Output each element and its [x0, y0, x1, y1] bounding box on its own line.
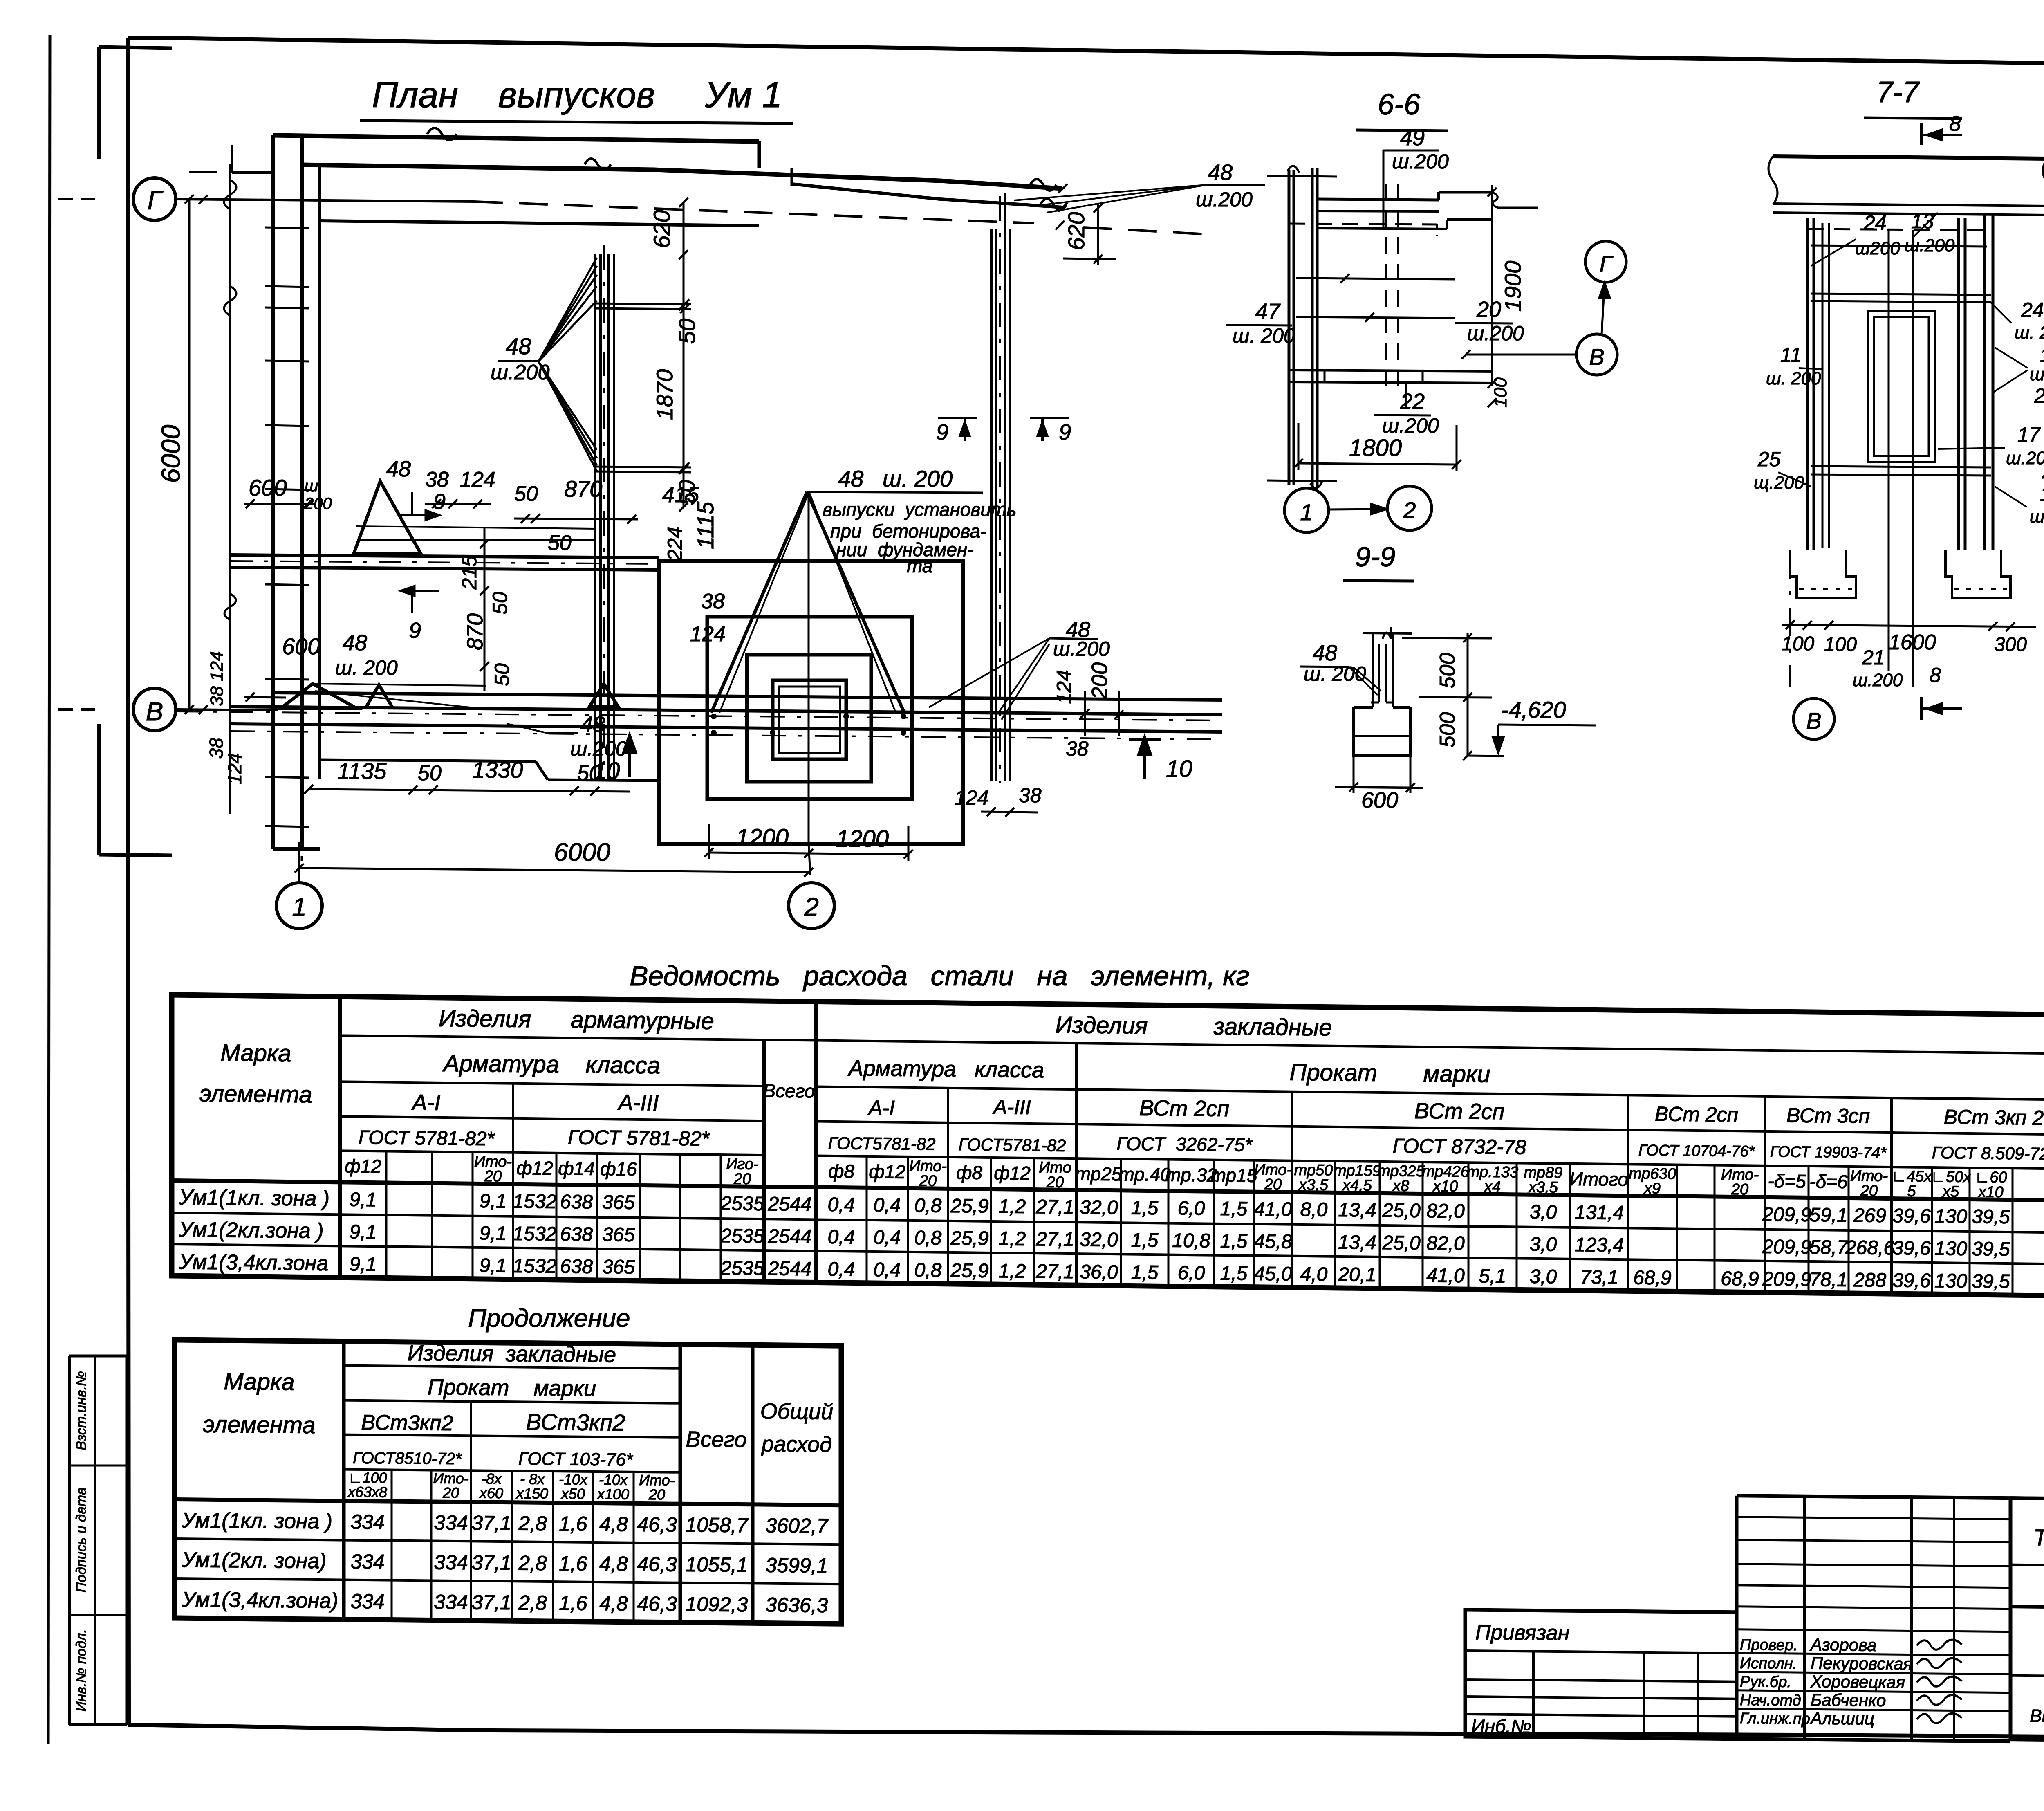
svg-text:ВСт 3кп 2: ВСт 3кп 2	[1944, 1105, 2044, 1129]
svg-text:20: 20	[442, 1484, 459, 1501]
svg-text:Подпись и дата: Подпись и дата	[74, 1487, 89, 1592]
svg-text:ВСт 2сп: ВСт 2сп	[1655, 1102, 1738, 1126]
svg-text:х5: х5	[1942, 1183, 1959, 1200]
svg-text:2535: 2535	[720, 1257, 764, 1279]
svg-text:Ведомость расхода стали: Ведомость расхода стали на элемент, кг	[630, 960, 1250, 992]
svg-text:25,9: 25,9	[950, 1195, 988, 1217]
svg-text:1,5: 1,5	[1131, 1262, 1159, 1284]
svg-text:9,1: 9,1	[350, 1254, 377, 1276]
svg-text:2: 2	[2042, 462, 2044, 482]
svg-text:10,8: 10,8	[1172, 1230, 1210, 1252]
svg-text:ш.200: ш.200	[491, 361, 549, 384]
svg-text:-δ=5: -δ=5	[1768, 1170, 1806, 1192]
svg-text:3,0: 3,0	[1530, 1266, 1557, 1288]
svg-text:23: 23	[2034, 384, 2044, 407]
svg-text:В: В	[1806, 708, 1821, 734]
svg-text:48: 48	[1313, 641, 1337, 665]
7-7 section mark 8 top	[1920, 123, 1923, 145]
7-7 mid vertical rebar	[1888, 230, 1890, 544]
svg-text:39,6: 39,6	[1892, 1205, 1931, 1227]
svg-text:1,5: 1,5	[1220, 1198, 1248, 1220]
svg-text:Ум1(1кл. зона ): Ум1(1кл. зона )	[182, 1508, 332, 1533]
top wall inner lines	[319, 221, 759, 226]
svg-text:ВСт 3сп: ВСт 3сп	[1786, 1104, 1870, 1127]
svg-text:38: 38	[1019, 784, 1042, 807]
svg-text:Всего: Всего	[763, 1080, 815, 1102]
axis G line	[176, 199, 474, 202]
svg-text:ВСт3кп2: ВСт3кп2	[361, 1411, 453, 1435]
svg-text:124: 124	[460, 468, 495, 491]
svg-text:59,1: 59,1	[1809, 1204, 1847, 1226]
svg-text:2,8: 2,8	[518, 1512, 547, 1535]
foundation pit middle square	[707, 617, 912, 799]
svg-text:А-I: А-I	[411, 1090, 440, 1115]
svg-text:200: 200	[1087, 662, 1112, 700]
svg-text:ГОСТ5781-82: ГОСТ5781-82	[959, 1135, 1066, 1155]
svg-text:Ум1(2кл.зона ): Ум1(2кл.зона )	[179, 1218, 324, 1243]
svg-text:870: 870	[463, 613, 487, 650]
9-9 dims 500 500	[1467, 633, 1469, 756]
svg-text:х4: х4	[1484, 1178, 1501, 1196]
svg-text:1,2: 1,2	[999, 1260, 1026, 1282]
svg-text:8: 8	[1949, 112, 1961, 136]
svg-text:та: та	[907, 555, 932, 577]
svg-text:45,8: 45,8	[1254, 1231, 1292, 1253]
svg-text:38 124: 38 124	[207, 651, 227, 707]
7-7 bottom dims 100 100 1600 300	[1782, 625, 2036, 627]
svg-text:1135: 1135	[337, 758, 387, 784]
svg-text:268,6: 268,6	[1845, 1237, 1894, 1259]
svg-text:11: 11	[1780, 343, 1802, 366]
svg-text:ГОСТ8510-72*: ГОСТ8510-72*	[353, 1449, 462, 1468]
svg-text:11: 11	[2040, 345, 2044, 366]
svg-text:39,6: 39,6	[1892, 1270, 1931, 1292]
svg-text:20: 20	[648, 1486, 665, 1503]
svg-text:ТП А-: ТП А-	[2033, 1524, 2044, 1551]
svg-text:Арматура класса: Арматура класса	[847, 1056, 1044, 1082]
dim chain mid 215 50 870 50	[484, 527, 486, 691]
svg-text:224: 224	[663, 527, 686, 561]
svg-text:6-6: 6-6	[1378, 88, 1421, 121]
svg-text:41,0: 41,0	[1426, 1265, 1465, 1287]
svg-text:3636,3: 3636,3	[766, 1593, 828, 1617]
svg-text:Привязан: Привязан	[1475, 1620, 1569, 1645]
7-7 wall left pair	[1806, 218, 1809, 550]
svg-text:х8: х8	[1392, 1177, 1409, 1194]
dim 6000 bottom	[299, 868, 809, 872]
svg-text:Всего: Всего	[686, 1427, 746, 1452]
svg-text:9,1: 9,1	[480, 1190, 507, 1212]
svg-text:Итого: Итого	[1569, 1168, 1628, 1190]
6-6 cross ties	[1296, 278, 1455, 279]
svg-text:2544: 2544	[768, 1258, 812, 1280]
svg-text:100: 100	[1782, 633, 1814, 655]
svg-text:Изделия закладные: Изделия закладные	[1055, 1012, 1332, 1041]
section mark 9 left pair upper	[401, 514, 439, 516]
svg-text:130: 130	[1934, 1238, 1967, 1260]
svg-text:3,0: 3,0	[1530, 1234, 1557, 1256]
svg-text:Прокат марки: Прокат марки	[1289, 1059, 1490, 1088]
svg-text:1200: 1200	[736, 824, 789, 851]
svg-text:9,1: 9,1	[480, 1255, 507, 1277]
6-6 dim 1800	[1298, 463, 1457, 465]
svg-text:600: 600	[282, 633, 320, 659]
axis G circle	[133, 178, 176, 220]
svg-text:1,5: 1,5	[1220, 1230, 1248, 1252]
7-7 section mark 8 bottom	[1920, 697, 1923, 720]
axis V dashes left of frame	[58, 708, 73, 711]
triangle on band at C1	[589, 684, 618, 707]
svg-text:Ум1(3,4кл.зона): Ум1(3,4кл.зона)	[182, 1588, 338, 1613]
svg-text:68,9: 68,9	[1721, 1268, 1759, 1290]
svg-text:638: 638	[560, 1256, 593, 1278]
mid outlet band B1	[230, 555, 659, 558]
svg-text:ш.200: ш.200	[2006, 448, 2044, 468]
6-6 dashed verticals	[1385, 184, 1387, 390]
svg-text:х50: х50	[560, 1485, 585, 1502]
svg-text:78,1: 78,1	[1809, 1269, 1847, 1291]
dim 620 right	[1097, 204, 1099, 265]
svg-text:х3,5: х3,5	[1298, 1176, 1329, 1194]
svg-text:20: 20	[1731, 1181, 1748, 1198]
svg-text:9: 9	[936, 420, 948, 444]
svg-text:2: 2	[804, 892, 819, 922]
svg-text:Ум1(2кл. зона): Ум1(2кл. зона)	[182, 1548, 327, 1573]
svg-text:45,0: 45,0	[1254, 1263, 1292, 1285]
svg-text:6000: 6000	[156, 424, 186, 483]
9-9 foundation	[1354, 707, 1410, 756]
title block right part	[2010, 1498, 2044, 1503]
svg-text:ф12: ф12	[994, 1162, 1031, 1184]
svg-text:1,2: 1,2	[999, 1228, 1026, 1250]
svg-text:46,3: 46,3	[637, 1513, 677, 1536]
svg-text:6000: 6000	[554, 838, 610, 866]
svg-text:48: 48	[343, 631, 367, 655]
svg-text:х150: х150	[515, 1485, 548, 1502]
svg-text:Нач.отд: Нач.отд	[1740, 1692, 1801, 1709]
7-7 footings	[1790, 550, 1856, 598]
svg-text:27,1: 27,1	[1035, 1228, 1074, 1250]
svg-text:Ум1(3,4кл.зона: Ум1(3,4кл.зона	[179, 1250, 328, 1275]
svg-text:41,0: 41,0	[1254, 1198, 1292, 1221]
svg-text:38: 38	[1066, 737, 1089, 760]
axis V line	[176, 709, 278, 710]
svg-text:ф12: ф12	[869, 1161, 905, 1183]
svg-text:22: 22	[1400, 389, 1425, 414]
svg-text:48: 48	[386, 457, 411, 481]
svg-text:38: 38	[701, 590, 725, 613]
svg-text:0,4: 0,4	[874, 1259, 901, 1281]
svg-text:ф12: ф12	[345, 1155, 381, 1177]
svg-text:2535: 2535	[720, 1225, 764, 1247]
svg-text:х4,5: х4,5	[1342, 1177, 1372, 1194]
dim 124 38 below C2	[981, 812, 1038, 812]
sheet edge line left	[48, 35, 50, 1744]
svg-text:16: 16	[2040, 482, 2044, 505]
svg-text:2535: 2535	[720, 1193, 764, 1215]
svg-text:37,1: 37,1	[471, 1551, 511, 1574]
svg-text:1,6: 1,6	[559, 1591, 587, 1615]
svg-text:ГОСТ 5781-82*: ГОСТ 5781-82*	[359, 1127, 495, 1150]
svg-text:Арматура класса: Арматура класса	[442, 1050, 660, 1079]
svg-text:50: 50	[489, 592, 511, 615]
svg-text:39,5: 39,5	[1972, 1270, 2010, 1293]
foundation pit inner squares	[747, 655, 871, 782]
svg-text:39,5: 39,5	[1972, 1206, 2010, 1228]
svg-text:6,0: 6,0	[1178, 1198, 1205, 1220]
adjacent wall piece top left	[97, 47, 101, 159]
svg-text:ш.200: ш.200	[1905, 236, 1955, 256]
7-7 ties rows	[1811, 294, 1991, 295]
svg-text:620: 620	[649, 210, 675, 248]
svg-text:Г: Г	[148, 186, 164, 215]
svg-text:4,8: 4,8	[599, 1592, 628, 1615]
svg-text:ш. 200: ш. 200	[1766, 368, 1821, 388]
svg-text:В: В	[146, 697, 164, 726]
svg-text:1870: 1870	[652, 369, 677, 420]
svg-text:365: 365	[602, 1224, 635, 1246]
svg-text:ш.200: ш.200	[2030, 507, 2044, 527]
6-6 dim 1900	[1491, 185, 1493, 386]
svg-text:Выпусков. Разрезы 6-6÷9-9.: Выпусков. Разрезы 6-6÷9-9.	[2030, 1706, 2044, 1728]
triangle on band at left	[366, 685, 392, 707]
svg-text:20: 20	[1860, 1182, 1878, 1199]
svg-text:1,5: 1,5	[1220, 1263, 1248, 1285]
svg-text:269: 269	[1853, 1205, 1886, 1227]
svg-text:17: 17	[2017, 423, 2041, 446]
svg-text:48: 48	[1208, 160, 1233, 185]
svg-text:124: 124	[224, 753, 245, 785]
svg-text:600: 600	[1361, 788, 1398, 812]
svg-text:ш.200: ш.200	[1053, 637, 1110, 660]
svg-text:25,9: 25,9	[950, 1260, 988, 1282]
svg-text:ш200: ш200	[1855, 238, 1900, 258]
svg-text:Азорова: Азорова	[1809, 1635, 1876, 1654]
svg-text:20: 20	[484, 1168, 502, 1185]
svg-text:82,0: 82,0	[1426, 1200, 1465, 1222]
svg-text:Ум1(1кл. зона ): Ум1(1кл. зона )	[179, 1185, 329, 1211]
svg-text:9,1: 9,1	[350, 1189, 377, 1211]
svg-text:46,3: 46,3	[637, 1592, 677, 1616]
svg-text:500: 500	[1436, 653, 1459, 689]
svg-text:Прокат марки: Прокат марки	[428, 1375, 596, 1401]
svg-text:13,4: 13,4	[1338, 1232, 1376, 1254]
adjacent wall piece bottom left	[97, 724, 101, 855]
svg-text:5,1: 5,1	[1479, 1265, 1506, 1287]
svg-text:9: 9	[409, 618, 421, 643]
dim 6000 vertical	[188, 199, 191, 709]
title block privyazan box	[1465, 1610, 1737, 1739]
svg-text:7-7: 7-7	[1876, 76, 1920, 109]
svg-text:300: 300	[1994, 634, 2027, 655]
svg-text:24: 24	[2021, 298, 2044, 321]
triangle callout lower left	[281, 684, 356, 708]
7-7 inner void rect	[1868, 311, 1935, 462]
pit axis vertical	[808, 492, 810, 844]
svg-text:элемента: элемента	[203, 1411, 315, 1438]
fan 48 sh200 top right wall	[1014, 185, 1207, 200]
svg-text:0,8: 0,8	[914, 1195, 942, 1217]
left wall strip	[271, 135, 275, 849]
svg-text:32,0: 32,0	[1080, 1229, 1118, 1251]
svg-text:выпуски установить: выпуски установить	[823, 499, 1016, 520]
svg-text:48: 48	[580, 712, 605, 737]
svg-text:334: 334	[434, 1591, 468, 1614]
svg-text:24: 24	[1863, 211, 1887, 234]
svg-text:ш. 200: ш. 200	[2015, 323, 2044, 343]
svg-text:х3,5: х3,5	[1528, 1179, 1558, 1196]
svg-text:8: 8	[1930, 664, 1941, 687]
triangle callout upper left	[354, 481, 421, 554]
svg-text:0,4: 0,4	[828, 1194, 855, 1216]
svg-text:1,2: 1,2	[999, 1196, 1026, 1218]
dims 1135 50 1330 50 bottom	[309, 789, 630, 792]
svg-text:ВСт3кп2: ВСт3кп2	[526, 1409, 625, 1436]
9-9 dim 600	[1354, 787, 1410, 788]
svg-text:870: 870	[564, 476, 602, 502]
dim chain 620 50 1870 50 at C1	[683, 202, 685, 507]
svg-text:ГОСТ 10704-76*: ГОСТ 10704-76*	[1638, 1142, 1755, 1160]
svg-text:х9: х9	[1643, 1180, 1661, 1197]
outlet row pair lower near C1	[595, 467, 691, 467]
svg-text:100: 100	[1490, 377, 1511, 408]
axis G dashes left of frame	[58, 198, 73, 200]
svg-text:638: 638	[560, 1223, 593, 1245]
svg-text:73,1: 73,1	[1580, 1266, 1618, 1288]
svg-text:1: 1	[292, 892, 307, 922]
svg-text:ш.200: ш.200	[1392, 150, 1449, 173]
svg-text:50: 50	[577, 761, 601, 785]
svg-text:ГОСТ 8.509-72*: ГОСТ 8.509-72*	[1932, 1143, 2044, 1163]
svg-text:ГОСТ5781-82: ГОСТ5781-82	[828, 1133, 936, 1154]
svg-text:50: 50	[514, 482, 538, 506]
svg-text:131,4: 131,4	[1575, 1202, 1624, 1224]
svg-text:68,9: 68,9	[1633, 1267, 1671, 1289]
svg-text:А-III: А-III	[992, 1095, 1031, 1119]
foundation pit outer square	[659, 561, 963, 844]
svg-text:8,0: 8,0	[1300, 1199, 1328, 1221]
svg-text:334: 334	[350, 1510, 384, 1534]
svg-text:4,8: 4,8	[599, 1552, 628, 1575]
svg-text:х100: х100	[596, 1486, 629, 1503]
svg-text:209,9: 209,9	[1762, 1204, 1811, 1226]
axis 1 circle	[276, 883, 322, 929]
svg-text:ш.200: ш.200	[1196, 188, 1253, 211]
svg-text:1532: 1532	[513, 1191, 557, 1213]
top wall band	[273, 135, 759, 141]
svg-text:Рук.бр.: Рук.бр.	[1740, 1673, 1791, 1691]
7-7 wall right pair	[1957, 218, 1960, 550]
svg-text:20: 20	[1264, 1176, 1282, 1193]
svg-text:1055,1: 1055,1	[686, 1553, 748, 1576]
svg-text:334: 334	[350, 1590, 384, 1613]
svg-text:Общий: Общий	[760, 1399, 833, 1425]
steel consumption table	[172, 995, 2044, 1296]
svg-text:50: 50	[674, 319, 700, 344]
svg-text:365: 365	[602, 1192, 635, 1214]
svg-text:27,1: 27,1	[1035, 1261, 1074, 1283]
svg-text:элемента: элемента	[199, 1080, 312, 1108]
svg-text:4,8: 4,8	[599, 1513, 628, 1536]
svg-text:48: 48	[506, 333, 531, 359]
rebar column C1	[594, 254, 596, 779]
svg-text:215: 215	[458, 555, 481, 590]
svg-text:25,9: 25,9	[950, 1228, 988, 1250]
outlet row pair upper near C1	[595, 303, 691, 304]
svg-text:50: 50	[491, 663, 513, 686]
svg-text:ВСт 2сп: ВСт 2сп	[1139, 1096, 1230, 1121]
svg-text:тр15: тр15	[1210, 1165, 1257, 1186]
axis V outlet band	[273, 693, 1222, 700]
svg-text:х10: х10	[1977, 1183, 2003, 1201]
top band break marks	[427, 128, 457, 140]
svg-text:209,9: 209,9	[1762, 1268, 1811, 1290]
svg-text:638: 638	[560, 1191, 593, 1213]
svg-text:1532: 1532	[513, 1223, 557, 1245]
svg-text:3,0: 3,0	[1530, 1201, 1557, 1223]
svg-text:Изделия арматурные: Изделия арматурные	[439, 1005, 714, 1035]
svg-text:0,4: 0,4	[874, 1227, 901, 1249]
svg-text:124: 124	[955, 786, 988, 809]
svg-text:5: 5	[1907, 1183, 1916, 1200]
svg-text:39,6: 39,6	[1892, 1237, 1931, 1259]
svg-text:Изделия закладные: Изделия закладные	[408, 1341, 616, 1367]
svg-text:48 ш. 200: 48 ш. 200	[838, 466, 953, 491]
svg-text:13,4: 13,4	[1338, 1199, 1376, 1221]
svg-text:25,0: 25,0	[1382, 1200, 1421, 1222]
svg-text:1,5: 1,5	[1131, 1230, 1159, 1252]
axis 2 line	[809, 844, 810, 875]
axis V circle	[133, 688, 176, 731]
svg-text:209,9: 209,9	[1762, 1236, 1811, 1258]
svg-text:ш. 200: ш. 200	[335, 656, 398, 679]
svg-text:Инб.№: Инб.№	[1471, 1715, 1531, 1737]
svg-text:ш.: ш.	[305, 477, 323, 495]
svg-text:49: 49	[1400, 126, 1425, 150]
svg-text:124: 124	[1053, 670, 1076, 704]
svg-text:Исполн.: Исполн.	[1740, 1655, 1797, 1672]
svg-text:20: 20	[1476, 297, 1501, 322]
svg-text:Марка: Марка	[224, 1368, 294, 1396]
svg-text:-δ=6: -δ=6	[1809, 1171, 1848, 1192]
svg-text:2: 2	[1403, 497, 1416, 523]
svg-text:130: 130	[1934, 1270, 1967, 1292]
svg-text:ф14: ф14	[558, 1158, 595, 1179]
7-7 top dashed tie	[1807, 229, 1993, 230]
title block signature grid	[1735, 1496, 1739, 1739]
svg-text:288: 288	[1853, 1269, 1886, 1291]
section mark 9 left pair lower	[401, 590, 439, 592]
svg-text:46,3: 46,3	[637, 1553, 677, 1576]
svg-text:тр.40: тр.40	[1118, 1163, 1171, 1185]
svg-text:47: 47	[1255, 299, 1281, 324]
svg-text:расход: расход	[761, 1432, 832, 1457]
svg-text:А-III: А-III	[617, 1090, 659, 1115]
svg-text:25: 25	[1757, 448, 1781, 471]
svg-text:ш.200: ш.200	[570, 737, 627, 760]
svg-text:36,0: 36,0	[1080, 1261, 1118, 1283]
axis 1 line	[301, 172, 303, 875]
svg-text:0,4: 0,4	[828, 1259, 855, 1281]
svg-text:4,0: 4,0	[1300, 1263, 1328, 1286]
left margin stamp strip	[69, 1355, 127, 1358]
svg-text:1092,3: 1092,3	[686, 1593, 748, 1616]
svg-text:2,8: 2,8	[518, 1551, 547, 1575]
pit big triangle	[711, 492, 807, 713]
svg-text:500: 500	[1436, 712, 1459, 748]
dim 1200 1200	[709, 853, 908, 854]
svg-text:ф8: ф8	[956, 1162, 982, 1183]
